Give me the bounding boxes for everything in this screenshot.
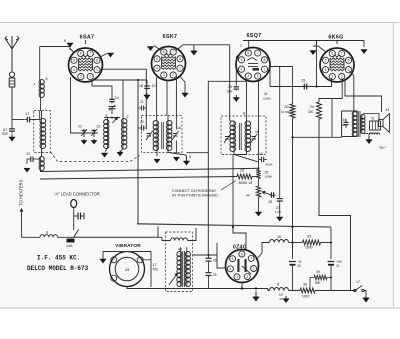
wire IF B+ feed bbox=[187, 152, 209, 154]
svg-text:700: 700 bbox=[153, 268, 159, 272]
wire 6SA7 signal grid bbox=[71, 77, 84, 133]
svg-text:7: 7 bbox=[341, 52, 343, 56]
wire AVC bus 1 bbox=[40, 168, 259, 171]
svg-text:40: 40 bbox=[246, 194, 250, 198]
svg-text:43: 43 bbox=[125, 267, 130, 272]
wire 6SQ7 grid to T2 bbox=[246, 81, 248, 116]
label 41 speaker bbox=[386, 108, 390, 112]
ground below 6SQ7 cap bbox=[233, 95, 239, 102]
wire speaker down bbox=[368, 133, 370, 136]
wire T2 secondary bottom bbox=[233, 151, 247, 233]
output transformer secondary bbox=[361, 115, 365, 134]
svg-text:41: 41 bbox=[386, 108, 390, 112]
wire 6SK7 avc bbox=[175, 75, 177, 129]
T2 primary coil bbox=[230, 121, 236, 151]
capacitor 24 bbox=[109, 96, 118, 104]
IF transformer T2 box bbox=[221, 116, 266, 155]
svg-text:8: 8 bbox=[96, 59, 98, 63]
wire secondary to speaker bbox=[363, 114, 379, 134]
svg-text:1000: 1000 bbox=[302, 295, 309, 299]
wire 6K6G grid line bbox=[270, 78, 332, 87]
wire 6SQ7 top stub bbox=[240, 41, 249, 49]
label VIBRATOR bbox=[115, 243, 141, 248]
wire electrolytic 2 down bbox=[330, 266, 332, 291]
wire vib pin stub bbox=[107, 252, 109, 258]
svg-text:100M: 100M bbox=[263, 97, 271, 101]
A lead connector bbox=[71, 200, 77, 208]
tube V2 6SK7 bbox=[152, 47, 186, 81]
choke 7 bbox=[33, 77, 48, 111]
tuning gang dashed line bbox=[51, 152, 140, 162]
svg-text:0Z4G: 0Z4G bbox=[233, 245, 247, 251]
wire 6K6G screen to speaker field bbox=[345, 80, 382, 112]
T1 core bbox=[162, 122, 164, 149]
coil 12 secondary bbox=[39, 157, 44, 171]
svg-text:7: 7 bbox=[250, 257, 252, 261]
vibrator transformer box bbox=[166, 232, 193, 292]
svg-text:39: 39 bbox=[316, 270, 320, 274]
wire T1 primary bottom bbox=[154, 150, 160, 164]
svg-text:2: 2 bbox=[257, 74, 259, 78]
svg-text:19: 19 bbox=[152, 84, 156, 88]
wire transformer top leads bbox=[175, 247, 187, 252]
ground left of vibrator bbox=[100, 252, 106, 264]
speaker field coil bbox=[370, 133, 380, 135]
trimmer 23 bbox=[91, 125, 101, 138]
wire to 0Z4 left pin bbox=[217, 243, 226, 268]
svg-text:6: 6 bbox=[331, 52, 333, 56]
wire 6SA7 to T1 bbox=[101, 69, 147, 129]
wire ant vert bbox=[39, 47, 41, 81]
T1 secondary coil bbox=[167, 116, 172, 151]
svg-text:8: 8 bbox=[64, 39, 66, 43]
label 6SK7 bbox=[163, 34, 178, 40]
output transformer primary bbox=[352, 112, 357, 137]
wire vibrator right bbox=[143, 259, 151, 261]
choke 10 bbox=[270, 235, 289, 243]
antenna connector bbox=[9, 72, 15, 87]
svg-text:9: 9 bbox=[277, 283, 279, 287]
vibrator pin 2 bbox=[111, 275, 117, 281]
T2 trimmer right bbox=[251, 130, 260, 143]
svg-text:DELCO MODEL R-673: DELCO MODEL R-673 bbox=[27, 265, 89, 272]
svg-text:17: 17 bbox=[153, 263, 157, 267]
arrow below osc coil B bbox=[117, 149, 123, 157]
svg-text:28: 28 bbox=[269, 200, 273, 204]
svg-text:20: 20 bbox=[298, 264, 302, 268]
wire 6K6G plate bbox=[350, 71, 354, 111]
capacitor 20 stub bbox=[138, 120, 144, 131]
svg-text:1: 1 bbox=[253, 267, 255, 271]
wire vibrator top bbox=[103, 251, 151, 253]
wire top to ant coil bbox=[39, 111, 41, 120]
svg-text:6SK7: 6SK7 bbox=[163, 34, 178, 40]
svg-text:100M: 100M bbox=[265, 175, 273, 179]
svg-text:6: 6 bbox=[241, 252, 243, 256]
wire 6SA7 osc plate bbox=[92, 79, 147, 119]
wire screen drop bbox=[208, 81, 246, 255]
svg-text:21: 21 bbox=[140, 100, 144, 104]
wire plate down to T2 bbox=[229, 45, 231, 121]
wire A-lead into transformer bbox=[158, 237, 171, 240]
ground below antenna bbox=[9, 134, 15, 141]
wire connector to switch bbox=[73, 208, 75, 231]
IF transformer T1 box bbox=[142, 116, 183, 153]
svg-text:6SA7: 6SA7 bbox=[80, 35, 95, 41]
T2 trimmer left bbox=[224, 134, 231, 143]
svg-text:16: 16 bbox=[177, 126, 181, 130]
resistor 26 bbox=[237, 169, 259, 186]
wire wiper to cap 28 bbox=[268, 192, 269, 195]
page border top bbox=[0, 22, 400, 24]
svg-text:560: 560 bbox=[315, 281, 321, 285]
svg-text:4: 4 bbox=[73, 68, 75, 72]
label 6SQ7 bbox=[247, 33, 262, 39]
wire L_A junction bbox=[157, 226, 159, 237]
svg-text:7: 7 bbox=[172, 50, 174, 54]
svg-text:3: 3 bbox=[163, 73, 165, 77]
wire B+ vertical bbox=[292, 67, 294, 105]
svg-text:6K6G: 6K6G bbox=[328, 35, 343, 41]
capacitor 67 to ground bbox=[2, 120, 15, 137]
svg-text:6: 6 bbox=[80, 52, 82, 56]
svg-text:TO HEATERS: TO HEATERS bbox=[19, 179, 24, 206]
tube V4 6K6G bbox=[320, 48, 354, 82]
capacitor 12 bbox=[26, 152, 41, 162]
wire choke right bbox=[188, 228, 197, 241]
svg-text:17: 17 bbox=[25, 111, 30, 116]
svg-text:4: 4 bbox=[241, 67, 243, 71]
arrow to heaters bbox=[20, 208, 24, 216]
svg-text:23: 23 bbox=[97, 125, 101, 129]
wire bus L_B bbox=[137, 224, 331, 227]
ground below cap 12 bbox=[24, 159, 30, 173]
wire 6SA7 grid stub bbox=[85, 40, 87, 44]
wire B+ vertical 2 bbox=[291, 118, 293, 259]
output transformer box bbox=[342, 111, 357, 137]
wire 6SQ7 plate to grid line bbox=[263, 67, 271, 101]
wire H2 to 6SA7 bbox=[40, 47, 70, 51]
svg-text:3: 3 bbox=[80, 75, 82, 79]
svg-text:22: 22 bbox=[78, 125, 82, 129]
arrow right 6SK7 bbox=[191, 45, 198, 56]
capacitor 18 bbox=[139, 80, 156, 90]
wire 0Z4 right bbox=[256, 243, 270, 261]
wire x331 vertical bbox=[330, 227, 332, 259]
wire osc to L_B bbox=[137, 80, 139, 224]
wire grid resistor drop bbox=[315, 41, 317, 88]
capacitor 27 bbox=[275, 197, 283, 214]
svg-text:.25: .25 bbox=[279, 297, 284, 301]
svg-text:18: 18 bbox=[139, 84, 143, 88]
svg-text:26: 26 bbox=[240, 169, 244, 173]
svg-text:5: 5 bbox=[156, 57, 158, 61]
svg-text:17: 17 bbox=[356, 280, 360, 284]
ground top left 6K6G bbox=[310, 46, 326, 55]
variable arrow osc bbox=[113, 117, 119, 124]
wire avc junction bbox=[258, 160, 260, 187]
wire A-lead right bbox=[74, 236, 158, 238]
ground below cap 18 bbox=[144, 93, 150, 99]
switch 17 bbox=[354, 280, 364, 292]
svg-text:500: 500 bbox=[227, 90, 233, 94]
svg-text:8: 8 bbox=[46, 77, 48, 81]
variable arrow transformer bbox=[169, 273, 178, 286]
wire vib cap vertical bbox=[151, 252, 158, 288]
wire bottom bus L_C bbox=[268, 289, 355, 291]
antenna coil bbox=[40, 111, 46, 151]
svg-text:4: 4 bbox=[156, 66, 158, 70]
T2 secondary coil bbox=[245, 116, 251, 151]
wire heaters down bbox=[21, 214, 23, 237]
svg-text:2: 2 bbox=[246, 275, 248, 279]
svg-text:1: 1 bbox=[240, 44, 242, 48]
wire osc junction bbox=[104, 118, 120, 121]
label 6K6G bbox=[328, 35, 343, 41]
label 0Z4G bbox=[233, 245, 247, 251]
capacitor 13 bbox=[259, 152, 273, 167]
page border right bbox=[393, 23, 395, 309]
svg-text:14A: 14A bbox=[66, 244, 73, 248]
ground below speaker bbox=[366, 136, 372, 144]
choke 9b bottom bbox=[270, 283, 289, 291]
svg-text:18: 18 bbox=[249, 181, 253, 185]
electrolytic 18-20 bbox=[289, 260, 301, 268]
vibrator pin 3 bbox=[137, 257, 143, 263]
capacitor 15 bbox=[301, 79, 310, 90]
svg-text:4: 4 bbox=[230, 267, 232, 271]
svg-text:6: 6 bbox=[163, 50, 165, 54]
wire switch to ground bbox=[364, 291, 366, 296]
svg-text:4: 4 bbox=[144, 126, 146, 130]
transformer top choke bbox=[171, 238, 188, 241]
svg-text:20: 20 bbox=[140, 120, 144, 124]
trimmer 22 bbox=[78, 125, 87, 138]
svg-text:300: 300 bbox=[308, 110, 314, 114]
svg-text:8: 8 bbox=[179, 57, 181, 61]
page border bottom bbox=[0, 307, 400, 309]
wire connector down bbox=[11, 87, 13, 120]
electrolytic 50-21 bbox=[328, 260, 342, 268]
vibrator transformer secondary bbox=[185, 252, 190, 287]
resistor 33 bbox=[303, 235, 321, 250]
svg-text:1: 1 bbox=[179, 66, 181, 70]
wire top right 6SK7 bbox=[176, 45, 229, 51]
wire 6SQ7 diode to volume bbox=[258, 81, 260, 160]
ground top of 6SA7 bbox=[64, 39, 74, 53]
wire choke to fuse bbox=[58, 236, 74, 238]
label A lead connector bbox=[54, 192, 100, 197]
T1 trimmer right bbox=[172, 126, 181, 140]
label 6SA7 bbox=[80, 35, 95, 41]
wire 24 down bbox=[319, 119, 351, 291]
speaker cone bbox=[379, 114, 390, 133]
svg-text:3: 3 bbox=[247, 74, 249, 78]
wire pot to ground bbox=[258, 197, 260, 212]
antenna bbox=[5, 36, 19, 49]
wire L_B to 0Z4 bbox=[232, 226, 246, 250]
node 6 bbox=[106, 114, 114, 119]
resistor 30 bbox=[281, 104, 295, 118]
volume pot bbox=[246, 186, 261, 198]
svg-text:1: 1 bbox=[264, 67, 266, 71]
svg-text:5: 5 bbox=[241, 58, 243, 62]
arrow below 6SK7 bbox=[180, 77, 188, 98]
wire ant coil bottom bbox=[41, 151, 43, 157]
wire buffer junction bbox=[193, 254, 218, 256]
wire H4 stub bbox=[123, 77, 137, 79]
wire res33 right bbox=[321, 241, 333, 243]
svg-text:5: 5 bbox=[73, 59, 75, 63]
wire 6SA7 osc grid bbox=[92, 81, 112, 99]
svg-text:15: 15 bbox=[213, 273, 217, 277]
wire 6SA7 plate right bbox=[100, 54, 107, 58]
wire top bus H1 bbox=[243, 40, 364, 42]
arrow end of top bus bbox=[361, 41, 367, 55]
T1 trimmer lead down bbox=[173, 141, 179, 162]
resistor 36 bbox=[300, 283, 315, 299]
wire A-lead left bbox=[22, 236, 41, 238]
fuse 14A bbox=[66, 239, 75, 249]
svg-text:45: 45 bbox=[213, 259, 217, 263]
svg-text:24: 24 bbox=[310, 105, 314, 109]
wire 0Z4 bottom bbox=[241, 283, 243, 290]
resistor 24 cathode bbox=[308, 102, 322, 119]
svg-text:1500: 1500 bbox=[305, 246, 313, 250]
ground below volume pot bbox=[255, 212, 261, 216]
ground below 0Z4 bbox=[253, 287, 260, 301]
capacitor 21 stub bbox=[138, 100, 146, 111]
svg-text:7: 7 bbox=[89, 52, 91, 56]
ground top left 6SK7 bbox=[147, 46, 160, 52]
wire antenna down bbox=[11, 49, 13, 71]
svg-text:10: 10 bbox=[277, 235, 281, 239]
svg-text:"B+": "B+" bbox=[379, 146, 387, 150]
svg-text:5: 5 bbox=[325, 59, 327, 63]
caption IF bbox=[37, 255, 80, 262]
label 43 bbox=[125, 267, 130, 272]
ground right of 6SA7 top bbox=[107, 53, 113, 57]
T2 core bbox=[240, 123, 242, 150]
capacitor 28 bbox=[269, 192, 276, 204]
svg-text:4: 4 bbox=[325, 68, 327, 72]
wire electrolytic down bbox=[292, 266, 294, 291]
oscillator coil A bbox=[104, 120, 109, 149]
antenna coil box bbox=[34, 111, 51, 153]
capacitor 46 bbox=[74, 213, 84, 220]
speaker voice coil bbox=[370, 117, 381, 131]
ground T1 right bbox=[183, 155, 191, 166]
T1 primary coil bbox=[153, 77, 158, 150]
buffer capacitor 45 bbox=[206, 255, 217, 273]
svg-text:1: 1 bbox=[96, 68, 98, 72]
choke 9 bbox=[40, 230, 58, 238]
svg-text:CONNECT CATHODE RAY: CONNECT CATHODE RAY bbox=[172, 189, 217, 193]
label B+ bbox=[379, 146, 387, 150]
resistor 25 volume top bbox=[256, 170, 272, 179]
caption model bbox=[27, 265, 89, 272]
vibrator inner bbox=[115, 257, 139, 281]
vibrator outer bbox=[110, 252, 145, 287]
svg-text:33: 33 bbox=[307, 235, 311, 239]
wire 6SK7 grid to T1 bbox=[166, 81, 168, 116]
svg-text:8: 8 bbox=[243, 112, 245, 116]
svg-text:1 MF: 1 MF bbox=[275, 210, 282, 214]
volume wiper arrow bbox=[262, 191, 275, 196]
svg-text:31: 31 bbox=[264, 92, 268, 96]
wire cap27 vertical bbox=[279, 67, 281, 197]
svg-text:900A: 900A bbox=[266, 163, 273, 167]
wire vibrator bottom bbox=[127, 287, 268, 289]
wire 6SQ7 left cap bbox=[236, 53, 240, 85]
wire T1 secondary bottom bbox=[168, 150, 186, 155]
vibrator pin 1 bbox=[111, 257, 117, 263]
switch arm bbox=[74, 230, 79, 238]
svg-text:42: 42 bbox=[178, 248, 182, 252]
vibrator transformer primary bbox=[177, 252, 182, 287]
svg-text:3: 3 bbox=[236, 275, 238, 279]
svg-text:15: 15 bbox=[301, 79, 305, 83]
ground below cap 27 bbox=[277, 203, 283, 221]
svg-text:7: 7 bbox=[257, 51, 259, 55]
svg-text:21: 21 bbox=[336, 264, 340, 268]
wire coil12 to bus bbox=[40, 170, 42, 172]
svg-text:6SQ7: 6SQ7 bbox=[247, 33, 262, 39]
svg-text:VIBRATOR: VIBRATOR bbox=[115, 243, 141, 248]
svg-text:5: 5 bbox=[189, 155, 191, 159]
svg-text:2: 2 bbox=[172, 73, 174, 77]
svg-text:39: 39 bbox=[371, 117, 375, 121]
capacitor 44 across primary bbox=[341, 118, 349, 128]
resistor 39 bbox=[310, 270, 332, 291]
svg-text:I.F. 455 KC.: I.F. 455 KC. bbox=[37, 255, 80, 262]
wire trimmer feed bbox=[83, 132, 98, 134]
svg-text:2: 2 bbox=[127, 115, 129, 119]
svg-text:“A” LEAD CONNECTOR: “A” LEAD CONNECTOR bbox=[54, 192, 100, 197]
svg-text:.007: .007 bbox=[341, 123, 347, 127]
svg-text:29: 29 bbox=[228, 85, 232, 89]
T1 trimmer left bbox=[144, 126, 153, 140]
buffer capacitor 15b bbox=[206, 273, 217, 289]
svg-text:24: 24 bbox=[115, 96, 119, 100]
wire B+ to output transformer bbox=[293, 136, 342, 138]
wire 6K6G cathode bbox=[319, 78, 342, 137]
wire T2 primary bottom diagonal bbox=[234, 151, 259, 162]
tube V3 6SQ7 bbox=[236, 48, 270, 82]
svg-text:8: 8 bbox=[348, 59, 350, 63]
output transformer core bbox=[358, 111, 360, 137]
svg-text:10 MEG: 10 MEG bbox=[281, 110, 293, 114]
ground below trimmer 23 bbox=[91, 139, 97, 145]
ground bottom right bbox=[363, 295, 370, 302]
capacitor 19 ground bbox=[279, 291, 290, 304]
trimmer capacitor bbox=[109, 105, 116, 114]
wire 6SQ7 plate right bbox=[269, 66, 293, 68]
svg-text:AT THIS POINT B.GROUND.: AT THIS POINT B.GROUND. bbox=[172, 194, 219, 198]
tube V5 0Z4G bbox=[226, 250, 259, 283]
note connect cathode ray bbox=[172, 181, 236, 198]
svg-text:5: 5 bbox=[232, 257, 234, 261]
label T2 8 bbox=[243, 112, 245, 116]
capacitor 17 bbox=[24, 111, 39, 122]
ground below osc coil A bbox=[101, 148, 107, 158]
label TO HEATERS bbox=[19, 179, 24, 206]
wire avc ext bbox=[267, 192, 269, 194]
svg-text:500: 500 bbox=[2, 132, 8, 136]
oscillator coil B bbox=[122, 115, 129, 149]
wire AVC bus 2 bbox=[40, 177, 237, 180]
svg-text:300M: 300M bbox=[239, 181, 248, 185]
